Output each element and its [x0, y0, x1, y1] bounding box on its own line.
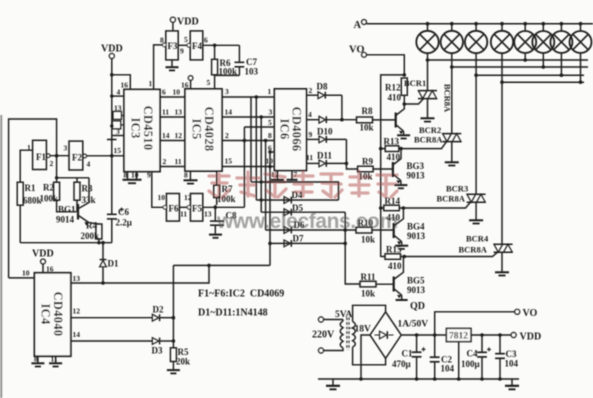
wire bottom rail — [20, 242, 112, 244]
resistor R11 — [360, 272, 376, 299]
wire F1 input to R1 — [20, 150, 32, 182]
wire IC3 pin6 to IC5 pin10 — [160, 96, 185, 98]
IC3 pin3 stub — [112, 135, 124, 137]
triac BCR4 — [459, 234, 513, 255]
svg-text:10k: 10k — [360, 123, 374, 133]
wire VDD column — [111, 59, 113, 140]
wire lamp bus row1 — [428, 59, 589, 61]
svg-text:11: 11 — [162, 108, 169, 117]
svg-text:CD4040: CD4040 — [51, 292, 65, 337]
wire secondary bottom to bridge — [353, 347, 386, 365]
svg-text:1: 1 — [149, 79, 153, 88]
svg-text:14: 14 — [162, 131, 170, 140]
svg-text:F4: F4 — [192, 41, 202, 51]
inverter F5 — [184, 193, 212, 221]
wire lamp bus row2 — [452, 66, 588, 68]
wire supply bottom rail — [318, 378, 519, 380]
svg-text:9: 9 — [180, 47, 184, 56]
wire R1 bottom to rail — [19, 205, 21, 243]
wire lamp4 drop to BCR4 — [501, 53, 503, 244]
IC3 pin4 stub — [112, 95, 124, 97]
capacitor C2 — [430, 335, 455, 381]
VDD terminal above IC4 — [32, 249, 54, 274]
resistor R1 — [17, 182, 41, 205]
svg-text:12: 12 — [73, 307, 81, 316]
svg-text:C3: C3 — [506, 349, 517, 359]
svg-text:12: 12 — [271, 170, 279, 179]
svg-text:16: 16 — [121, 81, 129, 90]
svg-text:R8: R8 — [362, 106, 373, 116]
transistor BG2 — [396, 104, 405, 134]
svg-text:2: 2 — [225, 131, 229, 140]
svg-text:13: 13 — [114, 104, 122, 113]
VDD terminal left — [101, 44, 123, 59]
wire R8 to BG2 base — [373, 119, 396, 121]
svg-text:R15: R15 — [386, 245, 402, 255]
resistor R3 — [74, 182, 96, 205]
svg-text:6: 6 — [204, 36, 208, 45]
svg-text:R10: R10 — [358, 218, 374, 228]
svg-text:D3: D3 — [152, 346, 163, 356]
bus vertical B — [260, 117, 262, 212]
svg-text:8: 8 — [160, 36, 164, 45]
transistor BG4 — [394, 208, 426, 245]
node QD — [396, 295, 425, 312]
wire R6 bottom to IC5 pin5 — [215, 75, 240, 89]
resistor R14 — [384, 196, 401, 223]
wire vertical D5/D6/D7 to R11 — [345, 212, 360, 284]
resistor R7 — [214, 171, 236, 207]
grounds below IC6 pins 12,7 — [271, 170, 298, 180]
svg-text:R1: R1 — [25, 183, 36, 193]
svg-text:D1: D1 — [108, 259, 119, 269]
resistor R10 — [356, 218, 375, 245]
wire top lamp bus — [366, 23, 593, 25]
svg-text:3: 3 — [269, 108, 273, 117]
wire lamp3 drop to BCR3 — [475, 53, 477, 194]
capacitor C4 — [461, 335, 491, 381]
svg-text:R4: R4 — [86, 221, 97, 231]
grounds below IC4 pins 8,11 — [31, 355, 62, 367]
wire bridge plus to 7812 — [401, 334, 446, 336]
IC6 pin4 and diode D9 — [306, 110, 356, 123]
svg-text:F1: F1 — [36, 152, 46, 162]
bus vertical C — [265, 141, 267, 231]
ground left of rail — [326, 379, 340, 389]
transformer secondary — [353, 322, 356, 348]
svg-text:6: 6 — [162, 88, 166, 97]
svg-text:D7: D7 — [293, 234, 304, 244]
diode D4 row — [256, 190, 338, 203]
svg-text:104: 104 — [505, 359, 519, 369]
lamp H2 — [441, 22, 463, 53]
svg-text:410: 410 — [387, 213, 401, 223]
wire IC4 pin14 row — [71, 340, 153, 342]
bridge rectifier — [370, 312, 428, 359]
svg-text:15: 15 — [225, 157, 233, 166]
svg-text:R9: R9 — [362, 157, 373, 167]
lamp H6 — [532, 22, 554, 69]
node F1 out — [55, 154, 59, 158]
svg-text:BCR2: BCR2 — [419, 125, 441, 135]
bus vertical E — [243, 127, 245, 207]
svg-text:2: 2 — [50, 159, 54, 168]
svg-text:11: 11 — [175, 157, 182, 166]
ground right of rail — [505, 379, 519, 389]
svg-text:12: 12 — [184, 193, 192, 202]
svg-text:BCR8A: BCR8A — [443, 84, 453, 113]
terminal A — [354, 20, 367, 32]
svg-text:D8: D8 — [317, 82, 328, 92]
svg-text:5VA: 5VA — [335, 310, 352, 320]
svg-text:BCR3: BCR3 — [446, 184, 468, 194]
svg-text:D5: D5 — [292, 203, 303, 213]
ground below IC5 pin8 — [184, 171, 198, 184]
svg-text:8: 8 — [184, 171, 188, 180]
wire IC5 pin14 to IC6 pin3 — [222, 116, 274, 118]
svg-text:D6: D6 — [294, 220, 305, 230]
wire D8 down to R8 row — [341, 95, 343, 120]
svg-text:103: 103 — [245, 67, 259, 77]
svg-text:5: 5 — [207, 78, 211, 87]
svg-text:D10: D10 — [317, 127, 333, 137]
inverter F2 — [64, 141, 91, 170]
wire IC5 pin15 to IC6 pin10 — [222, 166, 274, 168]
svg-text:C1: C1 — [402, 349, 413, 359]
svg-text:R13: R13 — [384, 137, 400, 147]
wire IC6 pin5 stub — [244, 126, 274, 128]
svg-text:10: 10 — [173, 88, 181, 97]
inverter F6 — [158, 193, 188, 221]
IC6 pin9 and diode D10 — [306, 127, 346, 143]
resistor R2 — [40, 182, 60, 203]
wire R10 to BG4 base — [372, 229, 394, 231]
svg-text:11: 11 — [306, 153, 313, 162]
svg-text:BG4: BG4 — [407, 222, 425, 232]
svg-text:11: 11 — [51, 355, 58, 364]
node junction C6/pin15 — [110, 154, 114, 158]
svg-text:VO: VO — [523, 308, 538, 319]
svg-text:R7: R7 — [222, 184, 233, 194]
svg-text:9013: 9013 — [407, 285, 426, 295]
inverter F3 — [160, 31, 184, 60]
wire 7812 out to VDD — [471, 334, 511, 336]
svg-text:~18V: ~18V — [350, 325, 371, 335]
svg-text:14: 14 — [73, 330, 81, 339]
svg-text:D2: D2 — [153, 305, 164, 315]
wire F3 out to F4 in — [178, 44, 188, 46]
svg-text:10: 10 — [131, 171, 139, 180]
svg-text:R11: R11 — [361, 272, 377, 282]
svg-text:BCR8A: BCR8A — [437, 194, 466, 204]
svg-text:C6: C6 — [118, 207, 129, 217]
svg-text:13: 13 — [175, 108, 183, 117]
wire R4 bottom to rail — [98, 239, 100, 243]
svg-text:4: 4 — [87, 160, 91, 169]
svg-text:3: 3 — [64, 144, 68, 153]
wire lamp bus row3 — [476, 74, 584, 76]
scan edge artifact — [0, 115, 2, 398]
svg-text:11: 11 — [180, 210, 187, 219]
svg-text:12: 12 — [175, 131, 183, 140]
IC5 pin16 VDD terminal — [181, 76, 193, 90]
svg-text:R14: R14 — [385, 196, 401, 206]
diode D6 row to R10 — [266, 220, 356, 233]
ground below BG4 — [395, 242, 408, 249]
ground below F3 — [166, 60, 179, 71]
svg-text:13: 13 — [73, 274, 81, 283]
svg-text:13: 13 — [204, 210, 212, 219]
svg-text:9013: 9013 — [407, 231, 426, 241]
svg-text:D11: D11 — [317, 151, 333, 161]
svg-text:IC3: IC3 — [129, 117, 143, 138]
wire feedback loop from IC4 pin10 to oscillator — [9, 119, 57, 278]
svg-text:D1~D11:1N4148: D1~D11:1N4148 — [198, 308, 268, 319]
svg-text:2: 2 — [309, 86, 313, 95]
resistor R6 — [212, 45, 237, 76]
triac BCR3 — [437, 184, 486, 204]
svg-text:3: 3 — [116, 127, 120, 136]
svg-text:1: 1 — [268, 87, 272, 96]
svg-text:BG1: BG1 — [58, 205, 76, 215]
IC3 pin1 from F3 input — [154, 45, 166, 90]
svg-text:VDD: VDD — [520, 332, 542, 343]
wire R2 top / R3 top — [57, 156, 89, 183]
svg-text:F6: F6 — [169, 204, 179, 214]
svg-text:5: 5 — [184, 35, 188, 44]
bus vertical F — [250, 97, 252, 182]
svg-text:R5: R5 — [178, 347, 189, 357]
capacitor C7 — [235, 45, 259, 76]
svg-text:4: 4 — [117, 88, 121, 97]
regulator 7812 — [446, 328, 471, 341]
svg-text:10: 10 — [158, 193, 166, 202]
IC3 CD4510 — [124, 89, 160, 171]
wire D4 row loop top — [251, 182, 339, 200]
diode D2 — [152, 305, 175, 322]
wire pin13 junction bus — [173, 264, 270, 266]
svg-text:QD: QD — [410, 301, 425, 312]
capacitor C1 — [392, 335, 426, 381]
svg-text:410: 410 — [388, 93, 402, 103]
wire lamp1 drop to BCR1 — [427, 53, 429, 90]
220V terminals — [312, 317, 335, 353]
wire R12 bottom / BCR1 gate — [404, 95, 423, 104]
wire VO to gate supply — [367, 55, 405, 257]
ground below BG2 — [397, 131, 410, 138]
transformer core — [347, 318, 349, 351]
svg-text:CD4066: CD4066 — [290, 107, 304, 152]
svg-text:15: 15 — [114, 146, 122, 155]
svg-text:C7: C7 — [246, 57, 257, 67]
svg-text:8: 8 — [34, 355, 38, 364]
svg-text:10k: 10k — [361, 289, 375, 299]
wire F5 out junction — [203, 206, 245, 208]
svg-text:20k: 20k — [176, 357, 190, 367]
svg-text:IC5: IC5 — [190, 118, 204, 139]
wire R2 bottom to BG1 base — [57, 200, 77, 212]
wires R15 / BCR4 gate — [381, 252, 498, 256]
inverter F4 — [184, 31, 208, 60]
wire C6 column — [111, 156, 113, 243]
svg-text:F2: F2 — [72, 153, 82, 163]
wire F2 out to IC3 pin15 — [87, 155, 124, 157]
capacitor C6 — [107, 207, 132, 228]
svg-text:IC4: IC4 — [39, 303, 53, 324]
wire IC5 pin3 to IC6 pin1 — [222, 96, 274, 98]
wire bridge minus to rail — [361, 335, 370, 379]
svg-text:BG3: BG3 — [407, 161, 425, 171]
svg-text:100k: 100k — [40, 194, 59, 204]
inverter F1 — [27, 140, 54, 169]
diode D7 row — [270, 234, 347, 247]
svg-text:R3: R3 — [82, 184, 93, 194]
wire IC5 pin2 to IC6 pin8 — [222, 140, 274, 142]
bus vertical D — [269, 152, 271, 265]
IC3 pin12 element — [112, 121, 121, 129]
svg-text:200k: 200k — [81, 231, 100, 241]
svg-text:C8: C8 — [226, 211, 237, 221]
svg-text:CD4028: CD4028 — [202, 107, 216, 152]
wire F4 out to C7 — [203, 44, 240, 46]
svg-text:9: 9 — [309, 130, 313, 139]
wire F1 out to F2 in — [50, 155, 69, 157]
svg-text:A: A — [354, 20, 362, 31]
capacitor C8 — [209, 207, 237, 238]
svg-text:10: 10 — [22, 269, 30, 278]
wire F6 out to F5 in — [179, 206, 188, 208]
ground below BCR2 — [445, 142, 459, 166]
svg-text:8: 8 — [268, 131, 272, 140]
lamp H4 — [491, 22, 513, 53]
transformer T primary — [340, 321, 343, 348]
wire 7812 ground — [458, 342, 460, 379]
resistor R13 — [384, 137, 401, 163]
wires R14 / BCR3 gate — [381, 202, 471, 208]
wires R13 / BCR2 gate — [381, 142, 447, 149]
wire IC3 pin2 to IC5 pin11 — [160, 166, 185, 168]
svg-text:BCR8A: BCR8A — [459, 245, 488, 255]
svg-text:F3: F3 — [168, 41, 178, 51]
wire R11 to BG5 base — [376, 283, 394, 285]
wire lamp bus row4 — [502, 81, 584, 83]
svg-text:8: 8 — [124, 171, 128, 180]
svg-text:7812: 7812 — [449, 332, 468, 342]
lamp H5 — [514, 22, 536, 62]
lamp H3 — [465, 22, 487, 53]
svg-text:VDD: VDD — [32, 249, 54, 260]
diode D1 — [100, 241, 119, 283]
svg-text:F5: F5 — [192, 204, 202, 214]
resistor R12 — [385, 78, 407, 103]
capacitor C3 — [495, 335, 518, 381]
svg-text:2: 2 — [163, 157, 167, 166]
wire IC3 pin14 to IC5 pin12 — [160, 140, 185, 142]
svg-text:4: 4 — [308, 110, 312, 119]
resistor R8 — [357, 106, 374, 133]
svg-text:D4: D4 — [292, 190, 303, 200]
svg-text:IC6: IC6 — [278, 118, 292, 139]
svg-text:BG5: BG5 — [407, 276, 425, 286]
svg-text:104: 104 — [441, 364, 455, 374]
ground below BCR4 — [495, 252, 509, 275]
resistor R4 — [81, 221, 102, 242]
IC4 CD4040 — [34, 273, 70, 356]
transistor BG1 — [56, 178, 89, 226]
wire IC3 pin11 to IC5 pin13 — [160, 116, 185, 118]
svg-text:F1~F6:IC2 CD4069: F1~F6:IC2 CD4069 — [198, 289, 284, 300]
ground below BG3 — [394, 181, 407, 189]
svg-text:2.2μ: 2.2μ — [116, 218, 132, 228]
svg-text:9013: 9013 — [407, 171, 426, 181]
svg-text:220V: 220V — [312, 330, 335, 341]
terminal VO — [349, 45, 367, 58]
lamp H8 — [570, 22, 592, 84]
wire R9 to BG3 base — [373, 168, 393, 170]
svg-text:14: 14 — [225, 108, 233, 117]
ground below IC3 pins 8,10 — [123, 171, 142, 184]
wire VO riser and line — [435, 312, 515, 335]
triac BCR1 — [404, 78, 453, 113]
svg-text:C4: C4 — [467, 349, 478, 359]
IC5 CD4028 — [185, 89, 222, 171]
resistor R9 — [358, 157, 374, 182]
ground below R5 — [167, 370, 180, 373]
svg-text:7: 7 — [294, 170, 298, 179]
wire lamp2 drop to BCR2 — [451, 53, 453, 133]
svg-text:VDD: VDD — [177, 17, 199, 28]
terminal VO out — [515, 308, 538, 319]
svg-text:9: 9 — [147, 171, 151, 180]
svg-text:R12: R12 — [385, 83, 401, 93]
resistor R5 — [170, 341, 190, 369]
svg-text:410: 410 — [388, 261, 402, 271]
lamp H7 — [550, 22, 572, 77]
wire D10 down to R9 — [346, 139, 357, 169]
wire IC4 pin12 row — [71, 317, 153, 319]
svg-text:100k: 100k — [217, 194, 236, 204]
svg-text:9014: 9014 — [56, 215, 75, 225]
IC6 CD4066 — [274, 89, 306, 171]
wire IC6 pin6 stub — [270, 151, 274, 153]
triac BCR2 — [414, 125, 461, 145]
transistor BG5 — [394, 257, 426, 299]
svg-text:10k: 10k — [359, 172, 373, 182]
wire IC4 pin13 row — [71, 265, 209, 283]
diode D5 row — [261, 203, 345, 216]
diode D3 — [152, 338, 176, 356]
bus vertical A — [255, 97, 257, 200]
VDD terminal top — [170, 17, 198, 28]
wire IC4 pin10 to loop — [9, 277, 35, 279]
svg-text:1A/50V: 1A/50V — [398, 320, 429, 330]
lamp H1 — [416, 22, 438, 53]
ground below BCR1 — [421, 99, 435, 122]
IC3 pin13 element — [113, 111, 122, 119]
resistor R15 — [385, 245, 402, 272]
transistor BG3 — [393, 149, 425, 184]
svg-text:470μ: 470μ — [392, 359, 411, 369]
terminal VDD out — [511, 332, 541, 343]
svg-text:BCR8A: BCR8A — [414, 135, 443, 145]
wires 220V to primary — [324, 320, 343, 351]
svg-text:10k: 10k — [361, 235, 375, 245]
svg-text:BCR4: BCR4 — [466, 234, 489, 244]
wire VDD to IC3 pin16 — [112, 75, 131, 90]
svg-text:5: 5 — [268, 118, 272, 127]
wire D2/D3 riser — [172, 265, 174, 341]
svg-text:100μ: 100μ — [461, 359, 480, 369]
